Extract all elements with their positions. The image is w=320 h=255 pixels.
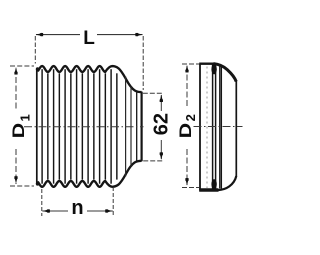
- svg-text:1: 1: [18, 114, 33, 121]
- svg-text:D: D: [177, 123, 195, 138]
- svg-text:L: L: [83, 28, 95, 49]
- svg-text:2: 2: [183, 114, 198, 121]
- svg-text:D: D: [10, 123, 28, 138]
- svg-text:62: 62: [150, 113, 172, 135]
- svg-text:n: n: [71, 197, 83, 219]
